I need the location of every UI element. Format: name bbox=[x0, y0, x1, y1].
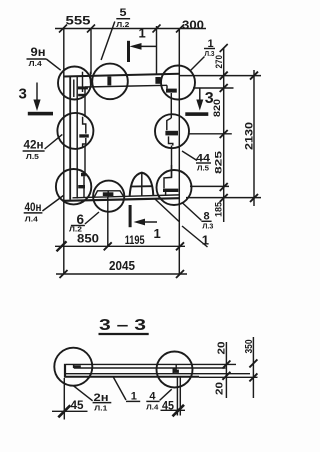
tick right inner top bbox=[220, 44, 228, 52]
svg-text:1: 1 bbox=[131, 391, 137, 403]
right wall outer face / extension bbox=[178, 29, 180, 276]
keystone trapezoid on bottom wall bbox=[94, 191, 123, 197]
svg-text:9н: 9н bbox=[31, 45, 46, 59]
svg-text:Л.3: Л.3 bbox=[205, 49, 215, 58]
right dim line outer 2130 bbox=[253, 70, 255, 206]
svg-text:300: 300 bbox=[182, 18, 204, 32]
tick B top bbox=[249, 359, 257, 367]
right wall inner line mid bbox=[171, 146, 173, 178]
slab bottom face 2 thick bbox=[64, 376, 199, 378]
svg-text:Л.2: Л.2 bbox=[116, 20, 129, 29]
slab left rebate dash bbox=[74, 365, 81, 368]
detail circle mid-right bbox=[155, 114, 189, 148]
underline 4 section bbox=[146, 400, 159, 402]
svg-text:555: 555 bbox=[66, 14, 91, 28]
bottom dim line 2 bbox=[56, 273, 187, 275]
extension line x156.5 bbox=[156, 26, 158, 74]
svg-text:3 – 3: 3 – 3 bbox=[99, 317, 146, 334]
leader 2n bbox=[73, 386, 92, 401]
slab rebate line bbox=[74, 367, 226, 369]
bold slash right 45 bbox=[173, 405, 185, 417]
detail circle mid-left bbox=[57, 113, 93, 149]
joint top-left vertical b bbox=[82, 72, 84, 92]
detail circle section right bbox=[157, 352, 193, 388]
tick right inner y75.6 bbox=[220, 72, 228, 80]
svg-text:40н: 40н bbox=[25, 200, 42, 214]
detail circle top-left bbox=[58, 67, 91, 100]
joint top-left vertical c bbox=[90, 72, 92, 84]
svg-text:850: 850 bbox=[77, 232, 99, 246]
slab right joint step bbox=[173, 364, 176, 373]
slab left end edge bbox=[64, 364, 66, 378]
right wall inner line upper bbox=[170, 93, 172, 118]
tick 300 right bbox=[176, 25, 184, 33]
svg-text:Л.4: Л.4 bbox=[29, 59, 43, 68]
underline 42n bbox=[23, 150, 45, 152]
tick right inner y187 bbox=[220, 183, 228, 191]
svg-text:Л.5: Л.5 bbox=[26, 152, 39, 161]
arch center vertical bbox=[141, 173, 143, 196]
svg-text:45: 45 bbox=[162, 399, 174, 413]
joint top-left weld dash 1 bbox=[78, 86, 88, 89]
underline 1L3 bbox=[204, 48, 215, 50]
joint top-middle tab bbox=[107, 77, 111, 86]
detail circle bottom-left bbox=[56, 169, 91, 204]
joint bottom-left vertical bbox=[83, 176, 85, 197]
slab top face bbox=[66, 363, 236, 365]
tick A top bbox=[222, 361, 230, 369]
svg-text:820: 820 bbox=[212, 99, 223, 117]
leader 1L3 bbox=[191, 57, 205, 71]
extension left 45 bbox=[63, 378, 65, 420]
detail circle bottom-right bbox=[157, 170, 192, 205]
svg-text:350: 350 bbox=[244, 339, 255, 353]
detail circle top-middle bbox=[92, 64, 128, 100]
section mark 3 left bar bbox=[28, 112, 53, 116]
svg-text:Л.1: Л.1 bbox=[94, 404, 107, 413]
tick 2045 right bbox=[176, 270, 184, 278]
tick 2130 bottom bbox=[250, 194, 258, 202]
top wall outer face bbox=[64, 74, 180, 77]
svg-text:1: 1 bbox=[154, 226, 161, 241]
bottom dim line 1 bbox=[55, 245, 185, 247]
left wall line 3 bbox=[76, 76, 78, 199]
joint top-right weld dash bbox=[166, 89, 177, 93]
svg-text:2045: 2045 bbox=[109, 258, 135, 273]
leader 42n bbox=[45, 134, 63, 149]
tick right inner y198 bbox=[220, 194, 228, 202]
section mark 3 left arrow bbox=[36, 83, 38, 103]
svg-text:3: 3 bbox=[19, 86, 27, 103]
svg-text:Л.5: Л.5 bbox=[197, 164, 209, 173]
svg-text:1195: 1195 bbox=[125, 233, 145, 247]
extension y88 bbox=[193, 87, 234, 89]
section title underline bbox=[99, 333, 149, 335]
diagonal element line C bbox=[182, 226, 208, 247]
tick 2130 top bbox=[250, 72, 258, 80]
slab bottom face 1 bbox=[64, 373, 250, 375]
leader 4 section bbox=[160, 389, 172, 400]
extension y197.6 bbox=[186, 197, 261, 199]
joint top-left weld dash 2 bbox=[78, 94, 86, 97]
arch chord bbox=[131, 185, 152, 187]
section mark 1 top bar bbox=[127, 41, 130, 62]
svg-text:185: 185 bbox=[214, 201, 225, 217]
section mark 1 bottom arrow bbox=[138, 221, 157, 223]
svg-text:2130: 2130 bbox=[244, 122, 256, 150]
tick 2045 left bbox=[60, 270, 68, 278]
joint bottom-left hook bbox=[81, 173, 86, 177]
text labels plan bbox=[19, 7, 256, 273]
tick right inner y88 bbox=[220, 84, 228, 92]
underline 44 bbox=[196, 162, 211, 164]
underline 6 bbox=[71, 225, 85, 227]
svg-text:4: 4 bbox=[149, 391, 156, 403]
slab bottom extension bbox=[199, 376, 258, 378]
left wall outer face / extension bbox=[63, 29, 65, 275]
svg-text:1: 1 bbox=[202, 233, 209, 248]
detail circle bottom-middle bbox=[93, 181, 124, 212]
svg-text:825: 825 bbox=[214, 150, 225, 174]
svg-text:Л.4: Л.4 bbox=[25, 215, 39, 224]
joint top-right inner corner vertical bbox=[166, 85, 168, 88]
extension keystone center bbox=[107, 197, 109, 247]
extension y134 bbox=[190, 133, 232, 135]
leader 6 bbox=[85, 212, 99, 224]
leader 8 bbox=[182, 203, 201, 221]
left wall inner face upper bbox=[84, 87, 86, 117]
top wall inner face bbox=[85, 85, 167, 87]
joint top-left vertical a bbox=[73, 80, 75, 98]
extension right joint b bbox=[179, 378, 181, 416]
svg-text:20: 20 bbox=[217, 341, 228, 355]
underline 1 section bbox=[126, 400, 140, 402]
dim line left 45 bbox=[52, 410, 88, 412]
joint bottom-right vertical lower bbox=[165, 192, 167, 195]
joint mid-right weld dash bbox=[165, 131, 178, 136]
keystone tee vertical bbox=[107, 191, 109, 197]
joint mid-right step upper bbox=[167, 118, 172, 130]
arch outer bbox=[130, 173, 154, 197]
svg-text:1: 1 bbox=[139, 26, 146, 41]
svg-text:270: 270 bbox=[214, 55, 225, 69]
slab left rebate step bbox=[73, 364, 75, 368]
bottom wall inner face bbox=[73, 195, 180, 198]
leader 40n bbox=[42, 196, 63, 212]
left wall inner face mid bbox=[84, 146, 86, 173]
section mark 1 top arrow bbox=[134, 45, 157, 47]
joint mid-left step lower bbox=[83, 138, 86, 147]
tick B bottom bbox=[249, 373, 257, 381]
left wall line 2 bbox=[69, 76, 71, 200]
svg-text:Л.3: Л.3 bbox=[202, 222, 213, 231]
underline 2n bbox=[93, 402, 112, 404]
svg-text:42н: 42н bbox=[24, 138, 44, 152]
text labels section bbox=[71, 317, 256, 413]
joint bottom-left weld dash bbox=[78, 185, 85, 188]
section dim line B bbox=[252, 337, 254, 398]
svg-text:2н: 2н bbox=[94, 392, 109, 404]
tick A bottom bbox=[222, 372, 230, 380]
underline 5 bbox=[116, 18, 130, 20]
tick 555 left bbox=[59, 25, 67, 33]
underline 8 bbox=[201, 220, 211, 222]
bottom wall outer face bbox=[64, 198, 180, 201]
svg-text:20: 20 bbox=[215, 381, 226, 395]
joint mid-left step upper bbox=[83, 117, 86, 134]
tick right inner y134 bbox=[220, 130, 228, 138]
joint mid-right step lower bbox=[169, 136, 173, 145]
section mark 1 bottom bar bbox=[129, 205, 132, 227]
tick 1195 right bbox=[176, 242, 184, 250]
section mark 3 right bar bbox=[185, 112, 208, 116]
extension right joint a bbox=[176, 378, 178, 416]
right dim line inner bbox=[223, 48, 225, 222]
bold slash left 45 bbox=[58, 405, 70, 417]
slab right joint dash bbox=[173, 370, 179, 373]
tick 300 left bbox=[153, 25, 161, 33]
dim line right 45 bbox=[161, 409, 186, 411]
joint bottom-right weld dash bbox=[163, 189, 178, 192]
extension y75.6 bbox=[180, 75, 261, 77]
keystone weld dash bbox=[103, 192, 114, 196]
joint mid-left weld dash bbox=[79, 134, 89, 137]
section dim line A bbox=[225, 342, 227, 398]
detail circle section left bbox=[54, 348, 92, 386]
section mark 3 right arrow bbox=[199, 89, 201, 103]
leader 5 bbox=[101, 22, 115, 61]
detail circle top-right bbox=[161, 66, 195, 100]
tick 555 right bbox=[87, 25, 95, 33]
joint seam tab at 300 mark bbox=[155, 77, 160, 84]
leader 9n bbox=[46, 59, 60, 70]
leader 44 bbox=[182, 151, 197, 161]
svg-text:Л.4: Л.4 bbox=[146, 403, 159, 412]
tick 850 left bbox=[57, 241, 67, 251]
underline 9n bbox=[27, 58, 47, 60]
top dimension line bbox=[55, 28, 206, 30]
extension y186.5 bbox=[190, 185, 229, 187]
joint bottom-right step upper bbox=[164, 165, 172, 188]
underline 40n bbox=[24, 212, 43, 214]
svg-text:45: 45 bbox=[71, 398, 84, 412]
extension line x91 bbox=[90, 29, 92, 75]
leader 1 section bbox=[113, 377, 126, 401]
svg-text:5: 5 bbox=[120, 7, 127, 19]
diagonal element line A bbox=[155, 199, 179, 222]
tick 850/1195 bbox=[104, 242, 112, 250]
